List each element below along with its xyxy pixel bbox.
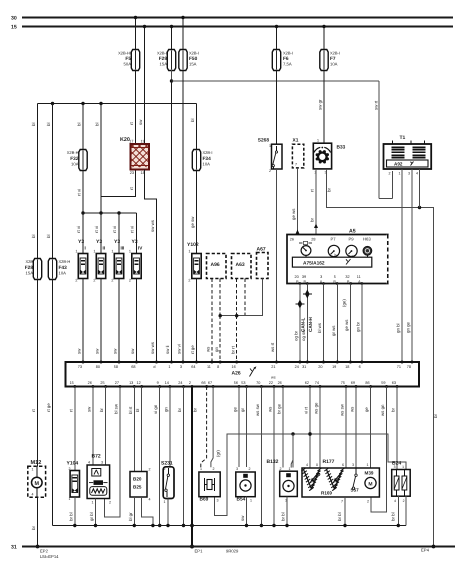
svg-text:rt vi: rt vi	[130, 226, 135, 233]
svg-text:S231: S231	[161, 461, 173, 467]
label wire bl ws	[317, 322, 322, 333]
svg-text:Y3: Y3	[96, 239, 102, 245]
svg-text:br: br	[177, 408, 182, 412]
label T1	[400, 135, 406, 141]
label A5	[349, 229, 356, 235]
svg-text:27: 27	[115, 381, 119, 385]
svg-text:gn bl: gn bl	[396, 323, 401, 333]
label wire pin22	[268, 406, 273, 412]
svg-text:69: 69	[351, 381, 355, 385]
wire B24 pin4 to collector	[397, 496, 400, 527]
connector X1	[292, 138, 303, 168]
svg-text:12: 12	[136, 381, 140, 385]
label wire br 3	[327, 188, 332, 192]
svg-text:25: 25	[100, 381, 104, 385]
svg-text:bl: bl	[95, 123, 100, 126]
svg-text:3: 3	[180, 365, 182, 369]
svg-text:X2B-H: X2B-H	[59, 259, 71, 264]
svg-text:19: 19	[141, 140, 145, 144]
label B33	[315, 139, 346, 175]
svg-text:R169: R169	[321, 491, 332, 496]
wire B33 pin2 to A5 pin 28	[315, 169, 317, 235]
svg-text:21: 21	[271, 365, 275, 369]
label wire B20 bl gr	[128, 512, 133, 521]
svg-text:rt vi: rt vi	[112, 226, 117, 233]
svg-text:ws ge: ws ge	[314, 402, 319, 414]
svg-text:br: br	[31, 526, 36, 530]
wire A26 pin24b to sensor ground line	[182, 387, 185, 528]
svg-text:10A: 10A	[203, 162, 211, 167]
wire F5 to K20	[135, 71, 137, 145]
svg-text:1: 1	[200, 467, 202, 471]
label EP4	[421, 545, 435, 553]
svg-text:bl: bl	[46, 235, 51, 238]
label wire pin75	[340, 403, 345, 416]
wire B132 to collector	[285, 497, 288, 528]
fuse F43	[48, 259, 56, 280]
control unit A5 box	[287, 235, 388, 284]
label fuse F29	[157, 51, 167, 67]
svg-text:4: 4	[416, 172, 418, 176]
svg-text:2: 2	[280, 467, 282, 471]
wire distribution rail y103	[38, 102, 197, 105]
svg-text:sw ws: sw ws	[150, 219, 155, 232]
svg-text:2: 2	[249, 467, 251, 471]
svg-text:og br: og br	[294, 330, 299, 341]
svg-text:4: 4	[306, 463, 308, 467]
svg-text:vi gn: vi gn	[153, 404, 158, 414]
svg-text:sw gr: sw gr	[318, 99, 323, 110]
wire F29 to A26 pin 1a	[171, 81, 173, 362]
wire F7 feed from bus 15	[322, 25, 325, 50]
lamp H63	[363, 237, 372, 258]
svg-text:CAN-H: CAN-H	[308, 317, 313, 332]
gauge in A5 (tachometer)	[299, 241, 312, 257]
svg-text:d: d	[153, 365, 155, 369]
svg-text:1: 1	[367, 463, 369, 467]
svg-text:gn br: gn br	[356, 321, 361, 332]
svg-text:X2B-I: X2B-I	[283, 51, 293, 56]
switch S268	[272, 144, 283, 169]
svg-text:br bl: br bl	[391, 512, 396, 521]
wire B33 pin3 ground run	[327, 169, 434, 547]
svg-text:11: 11	[357, 275, 361, 279]
wire A26 pin56 to B54 pin3	[238, 387, 240, 468]
wire branch to B132 pin1	[291, 434, 293, 468]
wire K20 to A26 pin d	[145, 170, 157, 363]
wire A26 pin27 to B72 pin2 jog	[104, 387, 120, 518]
svg-text:gn: gn	[163, 407, 168, 412]
label wire br 1	[310, 189, 315, 192]
wire B69 pin3 run to B132/R177/B24	[214, 432, 406, 515]
svg-text:1: 1	[32, 468, 34, 472]
wire F5 feed from bus 30	[134, 16, 137, 50]
wire S231 to collector	[166, 499, 169, 528]
label wire bl 5	[77, 123, 82, 126]
svg-text:bl: bl	[31, 235, 36, 238]
label wire br rt 1	[230, 345, 235, 354]
label wire rt vi 2	[94, 226, 99, 233]
label wire gn 1	[214, 347, 219, 352]
svg-text:30: 30	[11, 16, 17, 22]
svg-text:10A: 10A	[59, 271, 67, 276]
label 30	[11, 16, 17, 22]
svg-text:1: 1	[93, 250, 95, 254]
label R169	[321, 491, 332, 496]
svg-text:gn ge: gn ge	[406, 321, 411, 333]
label wire Y3 IV out	[130, 348, 135, 354]
label S268	[258, 138, 271, 174]
label wire rt vi 0	[77, 189, 82, 196]
label wire pin56	[233, 407, 238, 412]
wire S268 to A26 pin 21	[276, 169, 278, 362]
svg-text:3: 3	[217, 499, 219, 503]
svg-text:bl ws: bl ws	[317, 322, 322, 333]
label wire M12 feed	[31, 409, 36, 412]
svg-text:1: 1	[111, 250, 113, 254]
svg-text:ws: ws	[350, 406, 355, 412]
svg-text:sw: sw	[86, 406, 91, 412]
svg-text:vi rt: vi rt	[304, 406, 309, 414]
wire M12 to ground bus	[36, 497, 40, 548]
svg-text:58: 58	[114, 365, 118, 369]
label 9R029	[226, 549, 239, 554]
label fuse F50	[189, 51, 199, 67]
svg-text:X1: X1	[293, 138, 299, 144]
svg-text:5: 5	[334, 275, 336, 279]
svg-text:7: 7	[341, 500, 343, 504]
svg-text:M: M	[368, 481, 372, 487]
svg-text:73: 73	[78, 365, 82, 369]
wire bus 15 (ignition +)	[22, 26, 453, 28]
svg-text:Y3: Y3	[78, 239, 84, 245]
svg-text:Y3: Y3	[132, 239, 138, 245]
svg-text:X2B-I: X2B-I	[157, 51, 167, 56]
svg-text:53: 53	[241, 381, 245, 385]
valve Y104	[70, 471, 79, 498]
svg-text:II: II	[103, 246, 106, 251]
switch S231	[163, 467, 174, 499]
label wire Y3 III out	[113, 348, 118, 354]
svg-text:6: 6	[342, 463, 344, 467]
svg-text:1: 1	[92, 501, 94, 505]
label wire br 2	[310, 218, 315, 222]
svg-text:3: 3	[236, 467, 238, 471]
label wire pin53	[240, 408, 245, 412]
wire B72 pin1 to collector	[94, 499, 97, 528]
injector Y3 I	[78, 254, 87, 279]
svg-text:3: 3	[320, 275, 322, 279]
control unit A63	[232, 254, 252, 279]
label wire pin74	[314, 402, 319, 414]
wire bus15 to K20	[143, 25, 146, 144]
svg-text:sw: sw	[113, 348, 118, 354]
wire A26 pin14 to S231	[169, 387, 171, 467]
svg-text:1: 1	[168, 365, 170, 369]
svg-text:68: 68	[131, 365, 135, 369]
wire A26 pin53 to B54 pin2	[246, 387, 248, 468]
fuse F29	[167, 50, 175, 71]
svg-text:ge ws: ge ws	[291, 208, 296, 220]
label wire pin13	[128, 406, 133, 414]
svg-text:22: 22	[269, 381, 273, 385]
label A26	[232, 366, 257, 376]
svg-text:0: 0	[316, 463, 318, 467]
label K20 pin 17	[129, 140, 133, 144]
svg-text:2: 2	[69, 467, 71, 471]
svg-text:ws rt: ws rt	[270, 342, 275, 352]
svg-text:br: br	[310, 218, 315, 222]
svg-text:15: 15	[70, 381, 74, 385]
svg-text:A26: A26	[232, 371, 241, 377]
label B132	[267, 459, 291, 503]
svg-text:13: 13	[129, 381, 133, 385]
svg-text:8: 8	[217, 365, 219, 369]
wire A26 pin74 to R177 pin0	[319, 387, 321, 469]
injector Y3 II	[96, 254, 105, 279]
svg-text:20: 20	[318, 365, 322, 369]
label wire Y3 I out	[77, 348, 82, 354]
label B20 pins	[149, 468, 151, 502]
wire F6 to S268	[276, 71, 278, 145]
wire Y3 IV to A26 pin 68	[136, 279, 138, 363]
label Y104	[67, 461, 79, 502]
label wire br 4	[433, 414, 438, 418]
wire rail to F32	[82, 104, 84, 150]
svg-text:56: 56	[234, 381, 238, 385]
wire A26 pin26b to B132 pin2	[282, 387, 284, 468]
label wire gr ws	[331, 325, 336, 336]
svg-text:32: 32	[345, 275, 349, 279]
svg-text:2: 2	[188, 279, 190, 283]
svg-text:Lfd=EP14: Lfd=EP14	[40, 554, 59, 559]
wire B20 left to collector	[133, 497, 136, 527]
svg-text:br ge: br ge	[276, 403, 281, 414]
wire Y102 to A26 pin 3	[196, 279, 198, 363]
label R177 bottom pins	[341, 500, 369, 504]
svg-text:26: 26	[278, 381, 282, 385]
label K20 pin 19t	[141, 140, 145, 144]
label fuse F7	[330, 51, 340, 67]
control unit A75/A162	[292, 257, 371, 267]
wire Y104 to collector	[73, 497, 76, 527]
label K20	[120, 137, 130, 143]
label B72	[88, 454, 111, 505]
node arrow A5 pin28	[314, 224, 318, 229]
wire X1 to A5 pin 26	[297, 168, 299, 235]
heater/pump unit R177 box	[301, 468, 379, 497]
wire A26 pin69 to S57 pin3	[355, 387, 357, 469]
label CAN-L	[294, 318, 306, 341]
svg-text:ws gn: ws gn	[380, 404, 385, 416]
label wire rt vi 1	[76, 226, 81, 233]
svg-text:2: 2	[403, 499, 405, 503]
label wire ws rt	[270, 342, 275, 352]
label wire pin25	[99, 408, 104, 412]
svg-text:A92: A92	[394, 162, 403, 167]
wire A96 pin2 stub	[219, 279, 221, 316]
svg-text:10A: 10A	[330, 62, 338, 67]
wire rail to injector Y3 III	[118, 213, 120, 254]
label Y102	[187, 242, 199, 283]
wire A26 pin86 to M39 pin1	[370, 387, 372, 469]
svg-text:50A: 50A	[124, 62, 132, 67]
label wire pin59	[380, 404, 385, 416]
svg-text:9R029: 9R029	[226, 549, 239, 554]
label fuse F28	[25, 259, 34, 276]
label wire bl 6	[95, 123, 100, 126]
wire A67 to shield node	[219, 279, 263, 318]
svg-text:20: 20	[294, 275, 298, 279]
sensor B132	[280, 471, 298, 496]
label A5 pin 28	[311, 238, 315, 242]
wire Y3 III to A26 pin 58	[118, 279, 120, 363]
svg-text:18: 18	[345, 365, 349, 369]
wire A26 pin59 to M39 pin2 jog	[371, 387, 387, 513]
svg-text:A96: A96	[211, 262, 220, 268]
svg-text:A63: A63	[236, 262, 245, 268]
label wire sw ws 2	[150, 341, 155, 354]
label wire bl 2	[31, 235, 36, 238]
svg-text:br: br	[193, 408, 198, 412]
wire A26 pin13 to B20 left	[133, 387, 135, 472]
wire T1 pin4 to ground run	[419, 169, 421, 208]
label wire K20 out rt	[129, 187, 134, 190]
label wire pin9	[153, 404, 158, 414]
svg-text:X2B-I: X2B-I	[189, 51, 199, 56]
svg-text:2: 2	[269, 169, 271, 173]
wire F34 to Y102	[196, 171, 198, 254]
wire A26 pin26 to B72 pin4	[92, 387, 94, 466]
svg-text:2: 2	[93, 279, 95, 283]
wire rail corner to F34	[196, 104, 198, 150]
svg-text:sw vi: sw vi	[177, 344, 182, 354]
svg-text:2: 2	[129, 279, 131, 283]
wire F50 feed from bus 30	[181, 16, 184, 50]
svg-text:1: 1	[75, 250, 77, 254]
svg-text:2: 2	[367, 500, 369, 504]
wire F29 to T1 terminal 15 feed	[170, 70, 393, 198]
wire R177 pin7 to collector	[343, 497, 346, 527]
sensor B72	[87, 465, 110, 499]
svg-text:1: 1	[129, 250, 131, 254]
svg-text:rt vi: rt vi	[76, 226, 81, 233]
svg-text:sw: sw	[138, 119, 143, 125]
svg-text:sw: sw	[240, 515, 245, 521]
svg-text:H63: H63	[363, 237, 371, 242]
svg-text:B20: B20	[133, 477, 142, 482]
svg-text:ws: ws	[268, 406, 273, 412]
wire A26 pin12 to B20 right	[141, 387, 143, 472]
svg-text:3: 3	[352, 463, 354, 467]
label wire B72 gr bl	[89, 512, 94, 521]
svg-text:1: 1	[69, 497, 71, 501]
svg-text:rt ge: rt ge	[46, 403, 51, 412]
svg-text:bl: bl	[46, 123, 51, 126]
label S231	[161, 461, 173, 505]
wire A96 pin1 shield stub	[211, 279, 213, 363]
label wire F43 down	[46, 403, 51, 412]
control unit A26 box	[66, 362, 420, 387]
svg-text:B72: B72	[92, 454, 101, 460]
wire F6 feed from bus 15	[275, 25, 278, 50]
svg-text:X2B-I: X2B-I	[330, 51, 340, 56]
svg-text:br bl: br bl	[68, 512, 73, 521]
svg-text:gn: gn	[214, 347, 219, 352]
label wire pin15	[68, 409, 73, 412]
label wire pin26b	[276, 403, 281, 414]
wire A63 pin1 stub	[236, 279, 238, 316]
label wire sw vi	[177, 344, 182, 354]
svg-text:4: 4	[149, 498, 151, 502]
svg-text:rt vi: rt vi	[94, 226, 99, 233]
label Y3 IV	[129, 239, 143, 283]
svg-text:sw rt: sw rt	[374, 100, 379, 110]
svg-text:ge ws: ge ws	[344, 319, 349, 331]
wire F7 to B33 pin 1	[323, 71, 325, 144]
svg-text:59: 59	[381, 381, 385, 385]
label wire sw li	[165, 345, 170, 354]
fuse F7	[320, 50, 328, 71]
svg-text:75: 75	[341, 381, 345, 385]
fuse F34	[192, 150, 200, 171]
relay K20	[112, 144, 168, 170]
svg-text:rt vi: rt vi	[77, 189, 82, 196]
svg-text:X2B-HI: X2B-HI	[118, 51, 131, 56]
svg-text:ge sw: ge sw	[190, 216, 195, 228]
label CAN-H	[301, 317, 313, 341]
svg-text:2: 2	[164, 467, 166, 471]
wire F43 to collector line	[52, 280, 54, 526]
wire A26 pin63 to B24 left pin	[396, 387, 398, 470]
svg-text:br: br	[433, 414, 438, 418]
label wire Y3 II out	[95, 348, 100, 354]
svg-text:7,5A: 7,5A	[283, 62, 292, 67]
svg-text:sw: sw	[95, 348, 100, 354]
knock sensor B69	[199, 472, 220, 497]
wire rail to injector Y3 II	[100, 213, 102, 254]
svg-text:1: 1	[164, 500, 166, 504]
svg-text:P9: P9	[349, 237, 355, 242]
svg-text:br: br	[391, 408, 396, 412]
svg-text:9: 9	[157, 381, 159, 385]
svg-text:T1: T1	[400, 135, 406, 141]
wire Y3 I to A26 pin 73	[82, 279, 84, 363]
svg-text:Y3: Y3	[114, 239, 120, 245]
svg-text:66: 66	[201, 381, 205, 385]
wire T1 pin1 to A26 pin 71	[401, 169, 403, 362]
injector Y3 III	[114, 254, 123, 279]
svg-text:2: 2	[189, 381, 191, 385]
svg-text:bl gr: bl gr	[128, 512, 133, 521]
label wire pin63	[391, 408, 396, 412]
label S57	[351, 488, 360, 493]
wire A26 pin25 to B72 pin3	[105, 387, 107, 466]
svg-text:3: 3	[101, 461, 103, 465]
svg-text:B132: B132	[267, 459, 279, 465]
svg-text:2: 2	[389, 172, 391, 176]
svg-text:ge: ge	[233, 407, 238, 412]
svg-text:III: III	[121, 246, 125, 251]
svg-text:23: 23	[130, 171, 134, 175]
svg-text:2: 2	[111, 279, 113, 283]
label wire gn br	[356, 321, 361, 332]
label B69	[200, 467, 219, 503]
svg-text:bl: bl	[77, 123, 82, 126]
wire B20 right pin4 jog to collector	[142, 497, 155, 527]
label wire rt vi 3	[112, 226, 117, 233]
ignition coil T1	[384, 141, 432, 170]
